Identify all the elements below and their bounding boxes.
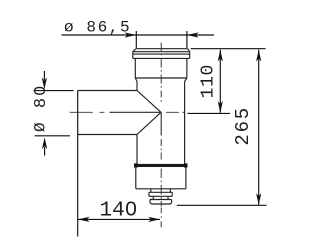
svg-text:8: 8 [32,98,51,108]
svg-text:ø 86,5: ø 86,5 [64,18,131,36]
svg-text:265: 265 [232,106,254,146]
svg-text:Ø: Ø [32,122,50,132]
